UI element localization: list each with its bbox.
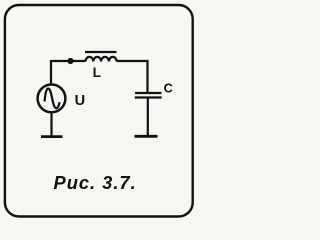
border frame (decorative) <box>5 5 193 217</box>
junction dot <box>67 58 73 64</box>
svg-text:L: L <box>93 65 101 80</box>
inductor core bar <box>85 51 117 53</box>
wire: right vertical down to capacitor <box>146 60 148 92</box>
svg-text:C: C <box>164 82 173 96</box>
svg-text:U: U <box>75 93 86 109</box>
wire: source top vertical <box>50 61 52 84</box>
wire: capacitor bottom vertical <box>147 98 149 136</box>
capacitor C bottom plate <box>135 96 162 98</box>
terminal bar under source <box>41 135 63 138</box>
AC source sine symbol <box>45 88 60 108</box>
AC source U circle <box>38 85 66 113</box>
wire: top horizontal left (source to inductor) <box>50 60 86 62</box>
svg-text:Рис. 3.7.: Рис. 3.7. <box>54 172 137 193</box>
wire: top horizontal right (inductor to cap branch) <box>117 60 149 62</box>
capacitor C top plate <box>135 92 162 94</box>
terminal bar under capacitor <box>135 135 158 138</box>
inductor L coil <box>86 57 117 62</box>
wire: source bottom vertical <box>50 113 52 136</box>
